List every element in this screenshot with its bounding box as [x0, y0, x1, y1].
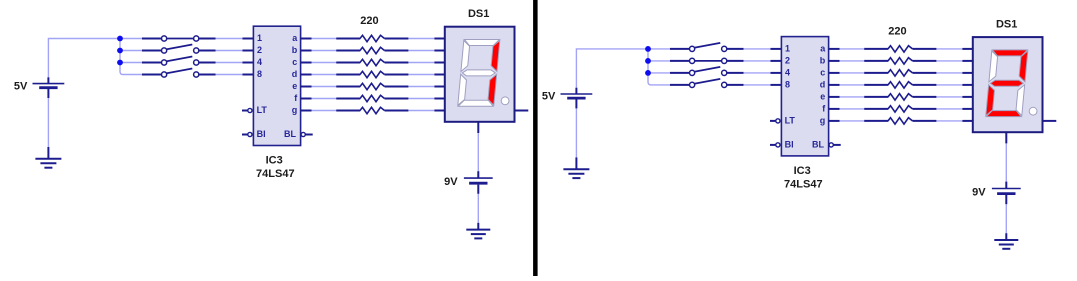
svg-text:IC3: IC3 — [266, 155, 283, 167]
svg-text:2: 2 — [257, 45, 262, 55]
svg-text:IC3: IC3 — [794, 165, 811, 177]
svg-text:9V: 9V — [444, 176, 458, 188]
svg-text:LT: LT — [257, 105, 268, 115]
svg-text:BL: BL — [812, 139, 824, 149]
svg-text:74LS47: 74LS47 — [256, 168, 295, 180]
svg-text:e: e — [820, 91, 825, 101]
svg-text:LT: LT — [785, 115, 796, 125]
svg-text:g: g — [292, 105, 298, 115]
svg-text:5V: 5V — [542, 91, 556, 103]
svg-text:BL: BL — [284, 129, 296, 139]
svg-text:4: 4 — [257, 57, 262, 67]
svg-text:5V: 5V — [14, 80, 28, 92]
svg-text:d: d — [292, 69, 298, 79]
svg-text:4: 4 — [785, 67, 790, 77]
svg-text:c: c — [292, 57, 297, 67]
svg-text:b: b — [292, 45, 298, 55]
svg-text:220: 220 — [888, 26, 906, 38]
svg-text:b: b — [820, 55, 826, 65]
svg-text:1: 1 — [785, 43, 790, 53]
svg-text:DS1: DS1 — [468, 8, 489, 20]
svg-text:8: 8 — [257, 69, 262, 79]
svg-text:BI: BI — [257, 129, 266, 139]
svg-text:BI: BI — [785, 139, 794, 149]
svg-text:c: c — [820, 67, 825, 77]
svg-text:220: 220 — [360, 15, 378, 27]
svg-text:d: d — [820, 79, 826, 89]
svg-text:9V: 9V — [972, 187, 986, 199]
svg-text:g: g — [820, 115, 826, 125]
svg-text:2: 2 — [785, 55, 790, 65]
svg-text:DS1: DS1 — [996, 18, 1017, 30]
svg-text:8: 8 — [785, 79, 790, 89]
svg-text:e: e — [292, 81, 297, 91]
svg-text:74LS47: 74LS47 — [784, 178, 823, 190]
svg-text:1: 1 — [257, 33, 262, 43]
